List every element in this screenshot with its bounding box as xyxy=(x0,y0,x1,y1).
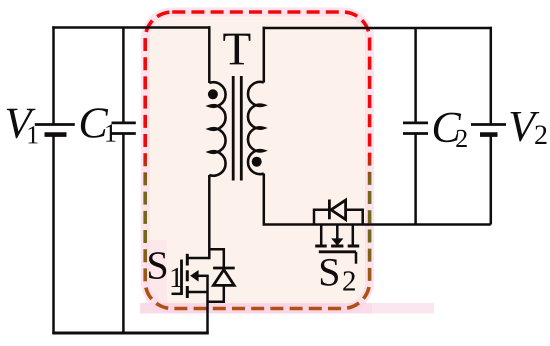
wire C2 branch lower xyxy=(414,134,417,225)
MOSFET S1 channel segment middle xyxy=(186,270,189,281)
wire S1 diode top branch xyxy=(209,249,224,268)
wire V2 branch upper xyxy=(490,27,493,125)
wire V2 branch lower xyxy=(490,135,493,225)
battery V1 long plate xyxy=(35,123,75,126)
MOSFET S1 source lead xyxy=(187,291,207,294)
MOSFET S2 diode branch xyxy=(314,210,363,225)
label C1 xyxy=(81,108,108,138)
wire C1 branch lower xyxy=(122,134,125,334)
MOSFET S1 source arrow line xyxy=(196,275,209,278)
transformer T secondary winding xyxy=(248,82,264,174)
dashed gradient border (red/olive/brown) xyxy=(145,12,369,309)
wire top-right rail xyxy=(263,27,492,30)
MOSFET S2 left leg xyxy=(320,225,323,245)
diode D1 triangle xyxy=(213,270,234,286)
pink band bottom right xyxy=(140,303,372,314)
wire S1 source vertical xyxy=(206,276,209,335)
capacitor C1 bottom plate xyxy=(112,132,136,135)
label C2 xyxy=(434,113,461,143)
wire C2 branch upper xyxy=(414,28,417,123)
secondary polarity dot xyxy=(252,157,262,167)
diode D2 triangle xyxy=(331,200,346,219)
diode D1 cathode bar xyxy=(213,267,235,270)
pink patch near S1 label xyxy=(146,240,167,305)
wire top-left rail xyxy=(52,26,210,29)
wire V1 branch upper xyxy=(52,26,55,124)
transformer T primary winding xyxy=(209,82,225,175)
MOSFET S2 channel segment left xyxy=(315,245,327,248)
MOSFET S2 channel segment middle xyxy=(331,245,343,248)
capacitor C2 bottom plate xyxy=(403,132,428,135)
label V1 xyxy=(7,109,36,138)
battery V2 short plate xyxy=(480,132,498,137)
MOSFET S2 arrow line xyxy=(336,225,339,240)
wire S1 diode bottom branch xyxy=(208,285,224,301)
wire primary bottom to S1 drain xyxy=(208,175,211,259)
MOSFET S1 drain lead xyxy=(187,257,209,260)
primary polarity dot xyxy=(208,89,218,99)
battery V2 long plate xyxy=(471,123,506,126)
MOSFET S2 gate bar xyxy=(319,250,356,253)
wire V1 branch lower xyxy=(52,135,55,335)
MOSFET S2 arrowhead xyxy=(331,238,343,245)
battery V1 short plate xyxy=(45,132,67,137)
MOSFET S2 channel segment right xyxy=(348,245,360,248)
MOSFET S1 source arrowhead xyxy=(190,270,199,282)
wire transformer primary top stub xyxy=(208,26,211,83)
wire bottom rail xyxy=(52,332,208,335)
transformer core xyxy=(232,76,235,181)
label V2 xyxy=(510,112,539,141)
capacitor C1 top plate xyxy=(112,122,136,125)
label T xyxy=(223,34,250,65)
label S1 xyxy=(149,252,166,279)
diode D2 cathode bar xyxy=(328,200,331,220)
pink jpeg halo around dashed border xyxy=(145,12,369,309)
label S2 xyxy=(321,259,338,286)
MOSFET S2 right leg xyxy=(352,225,355,245)
highlighted converter region fill xyxy=(145,12,369,309)
wire transformer secondary top stub xyxy=(263,27,266,83)
wire secondary bottom to corner xyxy=(264,174,491,225)
MOSFET S1 gate lead xyxy=(172,293,183,296)
MOSFET S1 channel segment top xyxy=(186,254,189,266)
MOSFET S1 channel segment bottom xyxy=(186,286,189,298)
MOSFET S1 gate bar xyxy=(180,260,183,296)
MOSFET S2 gate lead xyxy=(355,252,358,264)
wire C1 branch upper xyxy=(122,28,125,123)
capacitor C2 top plate xyxy=(403,122,428,125)
